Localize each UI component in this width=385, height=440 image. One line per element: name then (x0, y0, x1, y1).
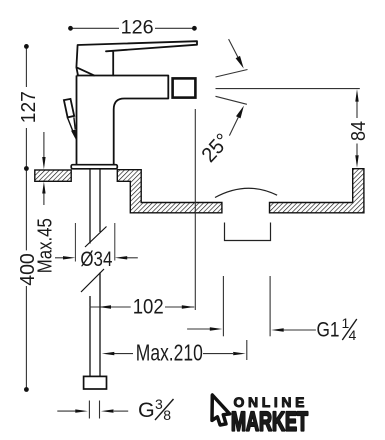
svg-text:4: 4 (349, 327, 357, 343)
countertop hatched left band (35, 170, 71, 181)
base flange (71, 165, 117, 169)
dimension line 102 (90, 306, 195, 308)
G 3/8 right arrow line (114, 410, 129, 412)
G 3/8 right arrowhead (101, 409, 114, 412)
G1 1/4 right extension line (269, 276, 271, 336)
faucet body and spout outline (77, 76, 169, 165)
25deg upper leader arrowhead (236, 56, 244, 69)
ceramic right section (270, 169, 364, 213)
svg-text:84: 84 (348, 121, 370, 141)
102 left arrowhead (99, 305, 112, 308)
pop-up rod arrow shaft (67, 117, 75, 132)
Ø34 right extension tick (114, 223, 116, 261)
svg-text:102: 102 (133, 295, 164, 319)
dot left end 126 (68, 26, 73, 31)
G 3/8 left arrowhead (75, 409, 88, 412)
G1 1/4 right arrowhead (271, 328, 284, 331)
dot bottom end 400 (24, 387, 29, 392)
fraction slash 3/8 (155, 399, 174, 420)
svg-text:8: 8 (163, 407, 171, 423)
25deg lower leader line (229, 117, 238, 135)
Max.210 right arrowhead (233, 352, 246, 355)
Ø34 left extension tick (74, 223, 76, 262)
Ø34 left arrowhead (63, 256, 75, 259)
G1 1/4 left extension line (222, 276, 224, 336)
svg-text:Ø34: Ø34 (80, 248, 112, 271)
25deg lower leader arrowhead (236, 106, 244, 119)
84 upper arrowhead (355, 89, 358, 102)
G 3/8 right extension tick (99, 401, 101, 419)
dot right end 126 (192, 26, 197, 31)
Ø34 right arrow line (127, 257, 138, 259)
svg-text:Max.45: Max.45 (35, 218, 57, 273)
84 lower arrowhead (355, 155, 358, 168)
logo cursor icon (212, 395, 230, 425)
break slash lower (81, 269, 104, 292)
G 3/8 left extension tick (88, 401, 90, 419)
Ø34 left arrow line (55, 257, 64, 259)
dimension line Max.210 (114, 353, 233, 355)
Max.45 upper arrowhead (42, 157, 45, 169)
pop-up rod arrowhead (71, 129, 76, 140)
dot top end 127 (24, 44, 29, 49)
G1 1/4 right arrow line (284, 329, 316, 331)
spray cone lower line (216, 96, 247, 104)
svg-text:127: 127 (18, 91, 40, 123)
dimension line 126 (71, 27, 195, 29)
dot mid 127/400 (24, 166, 29, 171)
spout extension line (194, 109, 196, 310)
ceramic stepped section (117, 170, 222, 213)
break slash upper (85, 227, 107, 248)
waste hole U-bracket (225, 223, 271, 241)
Max.45 lower arrow line (43, 193, 45, 205)
G 3/8 left arrow line (57, 410, 76, 412)
spray cone upper line (216, 70, 248, 78)
svg-text:G1: G1 (317, 318, 340, 342)
Max.45 upper arrow line (43, 132, 45, 158)
G1 1/4 left arrow line (187, 328, 210, 330)
Max.210 right extension tick (246, 340, 248, 360)
Max.45 lower arrowhead (42, 182, 45, 194)
supply stud lines (90, 169, 100, 377)
svg-text:3: 3 (155, 396, 163, 412)
dimension line 84 (356, 102, 358, 156)
svg-text:126: 126 (121, 16, 154, 38)
fraction slash 1/4 (342, 319, 357, 340)
Ø34 right arrowhead (115, 256, 127, 259)
Max.210 left arrowhead (102, 352, 115, 355)
aerator end block (173, 78, 196, 97)
spout level extension line (216, 88, 360, 90)
25deg upper leader line (229, 39, 238, 57)
pop-up rod knob (64, 99, 74, 118)
dimension line 127/400 (25, 46, 27, 389)
svg-text:G: G (138, 398, 155, 422)
G1 1/4 left arrowhead (210, 327, 223, 330)
svg-text:MARKET: MARKET (231, 407, 308, 437)
bowl rim arc (215, 188, 277, 197)
faucet lever handle outline (76, 41, 197, 75)
svg-text:Max.210: Max.210 (136, 339, 203, 365)
102 right arrowhead (182, 305, 195, 308)
hose end nut (84, 376, 107, 389)
